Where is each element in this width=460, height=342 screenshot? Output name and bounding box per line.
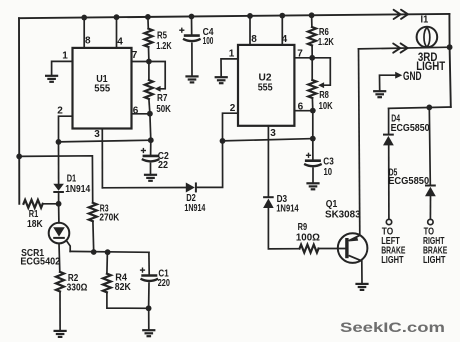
svg-text:22: 22 bbox=[158, 159, 168, 171]
node dot U2 pin2 junction bbox=[220, 138, 226, 144]
resistor R9 100 bbox=[300, 245, 319, 253]
ground C3 bbox=[306, 183, 319, 189]
node junction dot D5 top bbox=[426, 105, 432, 111]
svg-text:82K: 82K bbox=[115, 281, 131, 293]
node terminal left brake bbox=[386, 219, 391, 224]
wire GND stub bbox=[380, 75, 397, 91]
svg-text:10: 10 bbox=[324, 166, 333, 178]
wire C1 bottom stub bbox=[148, 283, 150, 308]
ground GND symbol bbox=[373, 91, 386, 97]
diode D1 1N914 bbox=[53, 184, 64, 191]
wire C3 bottom stub bbox=[312, 168, 314, 183]
resistor R6 1.2K bbox=[308, 27, 316, 45]
node terminal right brake bbox=[428, 219, 433, 224]
wire U1 pin 8 stub bbox=[83, 18, 85, 48]
resistor R5 1.2K bbox=[144, 29, 152, 47]
wire U2 pin 2 bbox=[223, 113, 239, 141]
wire trigger link to pin6 U2 bbox=[223, 139, 313, 141]
svg-text:I1: I1 bbox=[421, 13, 429, 25]
wire Q1 emitter down bbox=[361, 261, 363, 284]
node dot pin4 U1 rail bbox=[114, 14, 120, 20]
wire R6 top stub bbox=[311, 15, 313, 27]
op-amp U2 555 timer box bbox=[238, 45, 294, 126]
node dot pin6 U1 bbox=[147, 111, 153, 117]
wire R4 top stub bbox=[106, 252, 109, 274]
wire horizontal D4/D5 feed bbox=[389, 107, 451, 108]
wire U1 pin 4 stub bbox=[116, 17, 118, 48]
capacitor C4 100 bbox=[184, 34, 200, 37]
svg-text:4: 4 bbox=[117, 36, 123, 47]
svg-text:4: 4 bbox=[282, 34, 288, 45]
svg-text:100Ω: 100Ω bbox=[296, 232, 320, 244]
op-amp U1 555 timer box bbox=[73, 48, 132, 129]
wire pin6 to C3 node bbox=[312, 111, 314, 139]
diode D3 1N914 bbox=[263, 196, 274, 198]
wire C4 top stub bbox=[191, 17, 193, 35]
diode D2 1N914 bbox=[186, 182, 195, 192]
wire R4 bottom bend bbox=[107, 292, 149, 308]
node dot pin7 R5 R7 bbox=[146, 59, 152, 65]
svg-text:LIGHT: LIGHT bbox=[381, 254, 404, 266]
wire R5 bottom stub bbox=[148, 47, 150, 62]
svg-text:270K: 270K bbox=[99, 212, 119, 224]
wire R5 top stub bbox=[147, 17, 149, 29]
wire U2 pin 3 down bbox=[267, 126, 269, 196]
wire +12V top rail bbox=[19, 14, 449, 18]
svg-text:555: 555 bbox=[94, 82, 110, 94]
svg-text:1.2K: 1.2K bbox=[318, 36, 334, 48]
wire D5 bottom stub bbox=[429, 196, 431, 219]
wire U1 pin 2 bbox=[59, 116, 73, 142]
wire D2 to U2 trigger bbox=[196, 141, 223, 188]
node dot pin6 U2 bbox=[310, 108, 316, 114]
wire C4 bottom stub bbox=[191, 43, 193, 76]
resistor R7 50K potentiometer bbox=[145, 80, 153, 99]
wire gate junction line bbox=[70, 250, 149, 253]
wire U2 pin 4 stub bbox=[281, 16, 283, 45]
node dot C3 top bbox=[310, 136, 316, 142]
resistor R2 330 bbox=[56, 272, 64, 292]
wire D5 top stub bbox=[429, 107, 430, 184]
node dot R3 bottom bbox=[91, 249, 97, 255]
wire D1 top stub bbox=[58, 142, 60, 184]
wire SCR1 anode bbox=[58, 204, 60, 223]
svg-text:3: 3 bbox=[94, 129, 100, 140]
wire U2 pin 1 bbox=[221, 59, 238, 77]
svg-text:1N914: 1N914 bbox=[276, 202, 299, 214]
wire R3 bottom stub bbox=[92, 221, 95, 252]
svg-text:2: 2 bbox=[230, 103, 236, 114]
transistor Q1 SK3083 symbol bbox=[338, 233, 368, 263]
svg-text:3: 3 bbox=[270, 128, 276, 139]
svg-text:10K: 10K bbox=[319, 100, 333, 112]
wiper arrow R7 bbox=[155, 86, 161, 92]
resistor R4 82K bbox=[103, 274, 111, 293]
wire U1 pin 3 down bbox=[101, 129, 103, 188]
svg-text:ECG5850: ECG5850 bbox=[391, 122, 430, 134]
svg-text:1N914: 1N914 bbox=[184, 202, 205, 214]
wire D4 bottom stub bbox=[388, 146, 390, 220]
ground C2 bbox=[144, 175, 157, 181]
wire right rail from top corner down to lamp node bbox=[449, 14, 450, 107]
wire R7 bottom stub bbox=[149, 99, 150, 114]
arrow chevrons on lamp feed bbox=[393, 44, 400, 53]
wire R9 to Q1 base bbox=[319, 248, 346, 250]
svg-text:1: 1 bbox=[229, 49, 235, 60]
wire U2 pin 6 bbox=[294, 110, 312, 112]
wire D1 bottom stub bbox=[58, 192, 60, 204]
node dot R5 rail bbox=[145, 14, 151, 20]
wire pin3 to D2 bbox=[102, 187, 186, 189]
wire R2 bottom bbox=[59, 292, 61, 331]
wire lamp feed bbox=[359, 47, 450, 49]
diode D5 ECG5850 bbox=[425, 185, 436, 187]
capacitor C2 22 bbox=[143, 155, 159, 158]
wire D3 to R9 bbox=[268, 208, 299, 249]
wire pin6 to C2 node bbox=[149, 114, 152, 141]
svg-text:100: 100 bbox=[203, 35, 214, 47]
node dot left rail R3 bbox=[16, 154, 22, 160]
wire R8 top stub bbox=[311, 58, 313, 80]
arrow chevrons on top rail bbox=[394, 10, 401, 19]
wire U2 pin 8 stub bbox=[249, 16, 251, 45]
node dot pin4 U2 rail bbox=[279, 13, 285, 19]
node dot pin8 U2 rail bbox=[247, 13, 253, 19]
svg-text:220: 220 bbox=[158, 277, 170, 289]
wire Q1 collector up bbox=[359, 49, 360, 235]
svg-text:LIGHT: LIGHT bbox=[423, 254, 446, 266]
svg-text:1: 1 bbox=[62, 51, 68, 62]
transistor SCR1 ECG5402 symbol bbox=[49, 223, 70, 244]
ground Q1 emitter bbox=[355, 284, 368, 290]
svg-text:1.2K: 1.2K bbox=[156, 40, 172, 52]
node dot pin2 D1 junction bbox=[56, 139, 62, 145]
svg-text:ECG5402: ECG5402 bbox=[20, 255, 60, 267]
node dot R6 rail bbox=[309, 12, 315, 18]
svg-text:1N914: 1N914 bbox=[65, 183, 90, 195]
ground U2 pin 1 bbox=[215, 77, 228, 83]
wire U1 pin 1 bbox=[52, 61, 73, 75]
wiper arrow R8 bbox=[318, 82, 324, 88]
svg-text:8: 8 bbox=[251, 34, 257, 45]
resistor R8 10K potentiometer bbox=[308, 80, 316, 98]
node junction dot lamp/right rail bbox=[447, 44, 453, 50]
resistor R1 18K bbox=[24, 200, 43, 208]
svg-text:555: 555 bbox=[258, 81, 273, 93]
svg-text:330Ω: 330Ω bbox=[67, 281, 88, 293]
wire R7 top stub bbox=[148, 62, 150, 81]
wire U2 pin 7 bbox=[294, 57, 312, 59]
capacitor C3 10 bbox=[305, 159, 321, 162]
wire U1 pin 7 bbox=[132, 61, 149, 63]
arrow GND bbox=[395, 72, 402, 79]
svg-text:GND: GND bbox=[403, 69, 422, 83]
wire C3 top stub bbox=[312, 139, 314, 160]
svg-text:SeekIC.com: SeekIC.com bbox=[340, 319, 445, 335]
wire C2 bottom stub bbox=[150, 164, 152, 175]
node dot C4 rail bbox=[189, 14, 195, 20]
wire left rail to R3 bbox=[19, 156, 93, 203]
svg-text:8: 8 bbox=[85, 36, 91, 47]
node dot pin8 U1 rail bbox=[81, 15, 87, 21]
node dot pin7 R6 R8 bbox=[309, 55, 315, 61]
wire U1 pin 6 bbox=[132, 113, 150, 115]
diode D4 ECG5850 bbox=[383, 134, 394, 136]
svg-text:18K: 18K bbox=[27, 218, 43, 230]
ground C4 bbox=[185, 76, 198, 82]
wire SCR1 gate bbox=[66, 241, 70, 252]
resistor R3 270K bbox=[89, 203, 97, 221]
wire pin2 to pin6 link bbox=[59, 140, 151, 142]
wire C1 top stub bbox=[148, 252, 150, 274]
node dot C2 top bbox=[148, 137, 154, 143]
lamp I1 3RD LIGHT bbox=[417, 27, 438, 48]
svg-text:50K: 50K bbox=[156, 103, 171, 115]
wire R6 bottom stub bbox=[311, 45, 313, 57]
wire C1 ground stub bbox=[148, 308, 150, 330]
wire R1 to SCR node bbox=[43, 203, 59, 205]
node dot C1 R4 junction bbox=[146, 305, 152, 311]
wire D4 top stub bbox=[388, 108, 390, 133]
svg-text:SK3083: SK3083 bbox=[325, 209, 361, 221]
wire R7 wiper loop bbox=[149, 62, 165, 89]
wire R8 bottom stub bbox=[311, 98, 313, 111]
svg-text:2: 2 bbox=[57, 105, 63, 116]
wire R8 wiper loop bbox=[312, 58, 330, 85]
wire left supply rail bbox=[18, 18, 20, 204]
ground C1 R4 bbox=[142, 330, 155, 336]
capacitor C1 220 bbox=[141, 274, 157, 277]
wire SCR1 cathode bbox=[58, 243, 61, 272]
svg-text:ECG5850: ECG5850 bbox=[388, 175, 429, 187]
ground R2 bbox=[54, 331, 67, 337]
node dot D1 R1 SCR junction bbox=[56, 201, 62, 207]
ground U1 pin 1 bbox=[45, 76, 58, 82]
wire C2 top stub bbox=[150, 140, 152, 155]
node dot R4 top bbox=[105, 249, 111, 255]
svg-text:7: 7 bbox=[132, 50, 138, 61]
